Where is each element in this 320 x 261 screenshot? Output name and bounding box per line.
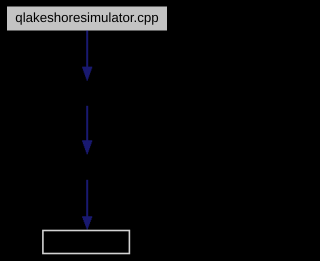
svg-text:qlakeshoresimulator.cpp: qlakeshoresimulator.cpp bbox=[15, 10, 158, 25]
wire edge3 bbox=[86, 180, 88, 217]
wire edge2 bbox=[86, 106, 88, 141]
node empty (unlabeled include) bbox=[43, 231, 129, 254]
arrowhead edge2 bbox=[82, 140, 92, 154]
arrowhead edge1 bbox=[82, 67, 92, 81]
arrowhead edge3 bbox=[82, 216, 92, 229]
node qlakeshoresimulator.cpp bbox=[7, 7, 167, 31]
wire edge1 bbox=[86, 30, 88, 67]
